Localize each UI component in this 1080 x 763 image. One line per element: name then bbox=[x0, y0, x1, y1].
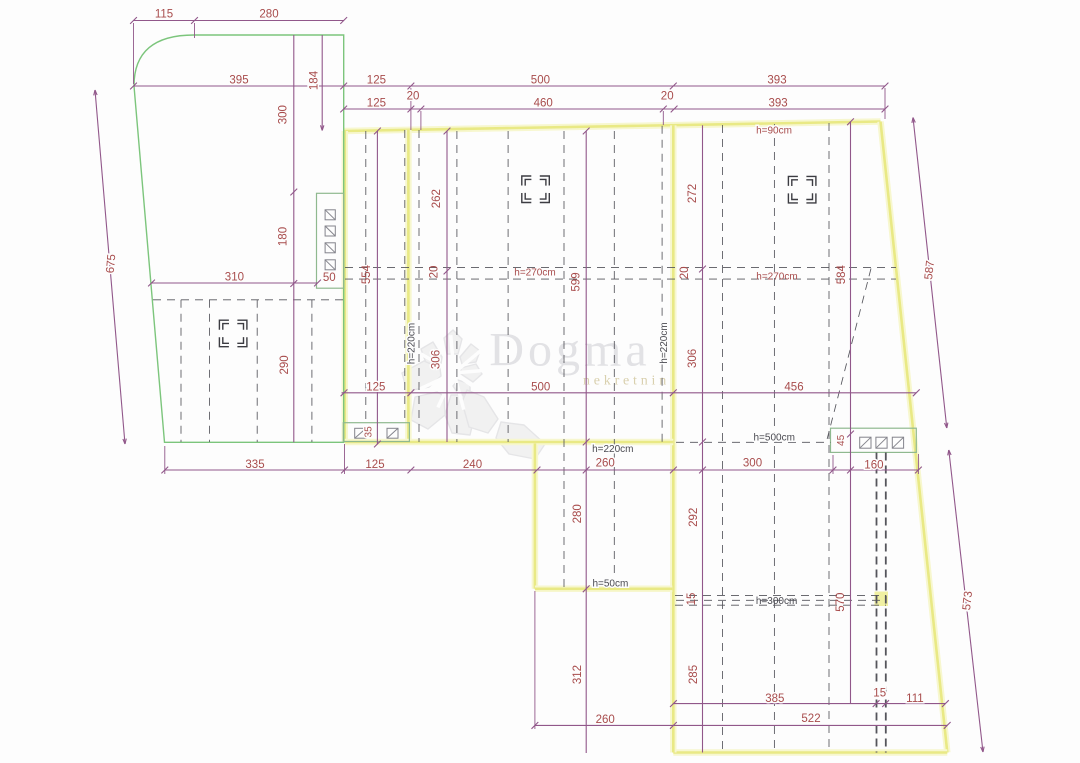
svg-text:50: 50 bbox=[323, 272, 336, 284]
dim line 385/15/111 bbox=[670, 700, 949, 707]
hatch squares in right box bbox=[860, 437, 904, 448]
svg-text:240: 240 bbox=[463, 459, 482, 471]
dashed roof line v x=829 bbox=[828, 123, 830, 753]
arrow of dim 184 bbox=[321, 125, 323, 130]
svg-text:587: 587 bbox=[923, 260, 937, 280]
hatch squares in upper-left box bbox=[325, 210, 335, 270]
svg-text:393: 393 bbox=[767, 75, 786, 87]
svg-text:573: 573 bbox=[961, 591, 975, 611]
svg-text:Dogma: Dogma bbox=[489, 324, 650, 377]
svg-text:599: 599 bbox=[571, 272, 583, 291]
dim line 115/280 bbox=[130, 17, 347, 24]
svg-text:260: 260 bbox=[596, 458, 615, 470]
wall yellow right edge (slanted) bbox=[881, 122, 948, 753]
watermark flower logo bbox=[402, 330, 545, 459]
svg-text:456: 456 bbox=[784, 382, 803, 394]
hatch squares in lower-left box bbox=[355, 428, 398, 438]
dashed roof line v x=366 bbox=[365, 131, 367, 423]
dashed level line h=270 lower bbox=[345, 278, 896, 280]
dim line 260/522 bbox=[532, 722, 951, 729]
svg-text:300: 300 bbox=[278, 105, 290, 124]
svg-text:584: 584 bbox=[836, 265, 848, 285]
svg-text:500: 500 bbox=[531, 75, 550, 87]
wall yellow vertical x=345 corridor bbox=[342, 131, 349, 442]
arrows of dim 573 bbox=[949, 450, 951, 455]
dim line 587 (slanted) bbox=[913, 118, 947, 429]
svg-text:262: 262 bbox=[431, 189, 443, 208]
svg-text:306: 306 bbox=[431, 350, 443, 369]
dashed roof line v x=722 bbox=[722, 125, 724, 753]
svg-text:300: 300 bbox=[743, 457, 762, 469]
dim texts rotated bbox=[105, 70, 975, 684]
svg-text:385: 385 bbox=[765, 693, 784, 705]
dashed roof line v x=257 bbox=[256, 300, 258, 442]
svg-text:115: 115 bbox=[155, 9, 173, 21]
dim line 599/280/312 bbox=[583, 128, 590, 753]
svg-text:272: 272 bbox=[687, 184, 699, 203]
svg-text:500: 500 bbox=[531, 382, 550, 394]
svg-text:554: 554 bbox=[361, 264, 373, 284]
dashed wall face v x=405 bbox=[404, 130, 406, 423]
svg-text:nekretnine: nekretnine bbox=[583, 374, 680, 389]
dim line 395/125/500/393 bbox=[130, 83, 888, 90]
svg-text:h=220cm: h=220cm bbox=[592, 444, 633, 455]
dim line 125/500/456 bbox=[341, 389, 920, 396]
svg-text:522: 522 bbox=[801, 713, 820, 725]
dashed level line h=300 lower bbox=[675, 604, 886, 606]
svg-text:h=500cm: h=500cm bbox=[753, 433, 794, 444]
dashed roof line v x=564 bbox=[563, 131, 565, 589]
svg-text:h=220cm: h=220cm bbox=[407, 323, 418, 364]
svg-text:125: 125 bbox=[367, 75, 386, 87]
svg-text:460: 460 bbox=[534, 98, 553, 110]
dashed roof line v x=508 bbox=[507, 131, 509, 442]
dim line 675 (slanted) bbox=[95, 90, 125, 444]
arrows of dim 587 bbox=[913, 118, 915, 123]
dashed wall face v x=662 bbox=[661, 126, 663, 442]
svg-text:125: 125 bbox=[366, 382, 385, 394]
dim line 300/180/290 bbox=[290, 35, 297, 442]
svg-text:20: 20 bbox=[661, 91, 674, 103]
wall yellow small room left edge x=535 bbox=[532, 444, 539, 589]
svg-text:20: 20 bbox=[679, 267, 691, 280]
dashed level line h=500 bbox=[676, 441, 831, 443]
dashed line y=300 left area bbox=[153, 299, 344, 301]
green plot outline with rounded corner bbox=[134, 35, 344, 442]
svg-text:395: 395 bbox=[229, 75, 248, 87]
svg-text:184: 184 bbox=[309, 70, 321, 90]
wall yellow horizontal y=442 bbox=[345, 439, 674, 446]
dashed roof line v x=209.5 bbox=[209, 300, 211, 442]
dashed roof line v x=181 bbox=[180, 300, 182, 442]
dim line 184 bbox=[321, 35, 323, 131]
svg-text:310: 310 bbox=[225, 272, 244, 284]
dim line 310 bbox=[148, 280, 321, 287]
dashed wall face v x=419 bbox=[418, 130, 420, 442]
dashed roof line v x=614 bbox=[613, 131, 615, 589]
wall yellow vertical x=673 bbox=[670, 125, 677, 752]
dashed roof line v x=457 bbox=[456, 131, 458, 442]
svg-text:15: 15 bbox=[686, 593, 698, 606]
svg-text:393: 393 bbox=[769, 98, 788, 110]
svg-text:h=220cm: h=220cm bbox=[659, 322, 670, 363]
svg-text:125: 125 bbox=[365, 459, 384, 471]
dashed level line h=270 upper bbox=[345, 267, 896, 269]
svg-text:180: 180 bbox=[278, 227, 290, 246]
green window box upper-left bbox=[317, 193, 344, 288]
svg-text:35: 35 bbox=[364, 426, 375, 438]
svg-text:280: 280 bbox=[572, 504, 584, 523]
dim line 554 bbox=[374, 128, 381, 448]
svg-text:160: 160 bbox=[864, 459, 883, 471]
dim line 584/570 bbox=[847, 118, 854, 703]
dim line 262/306 bbox=[444, 128, 451, 442]
svg-text:260: 260 bbox=[596, 714, 615, 726]
svg-text:675: 675 bbox=[105, 254, 119, 274]
svg-text:280: 280 bbox=[259, 9, 278, 21]
dim line 272/306/292/285 bbox=[699, 125, 706, 752]
dashed diagonal line bbox=[827, 269, 872, 442]
svg-text:h=50cm: h=50cm bbox=[592, 579, 628, 590]
dashed level line h=300 upper bbox=[675, 594, 886, 596]
svg-text:15: 15 bbox=[873, 688, 886, 700]
dashed double line v x=886 bbox=[885, 453, 887, 753]
svg-text:292: 292 bbox=[688, 508, 700, 527]
dashed roof line v x=774 bbox=[773, 124, 775, 753]
dashed roof line v x=312 bbox=[311, 300, 313, 442]
green window box right bbox=[831, 428, 917, 452]
height level texts bbox=[514, 126, 797, 607]
svg-text:20: 20 bbox=[407, 91, 420, 103]
arrows of dim 675 bbox=[95, 90, 97, 95]
svg-text:h=90cm: h=90cm bbox=[756, 126, 792, 137]
svg-text:290: 290 bbox=[279, 355, 291, 374]
svg-text:306: 306 bbox=[687, 349, 699, 368]
svg-text:312: 312 bbox=[572, 665, 584, 684]
svg-text:45: 45 bbox=[836, 434, 847, 446]
svg-text:285: 285 bbox=[688, 665, 700, 684]
svg-text:h=270cm: h=270cm bbox=[514, 268, 555, 279]
column symbol left room bbox=[219, 320, 247, 347]
svg-text:570: 570 bbox=[835, 593, 847, 612]
svg-text:111: 111 bbox=[906, 693, 923, 705]
green window box lower-left bbox=[343, 423, 409, 442]
svg-text:125: 125 bbox=[367, 98, 386, 110]
yellow patch at double dashed crossing bbox=[875, 592, 889, 607]
column symbol right room bbox=[788, 176, 816, 203]
svg-text:20: 20 bbox=[428, 266, 440, 279]
wall yellow small room bottom edge y=589 bbox=[535, 586, 672, 593]
wall yellow vertical x=409 corridor bbox=[405, 130, 412, 442]
dim line 573 (slanted) bbox=[949, 450, 983, 752]
dim texts horizontal bbox=[155, 9, 924, 726]
svg-text:h=300cm: h=300cm bbox=[756, 596, 797, 607]
dim line 125/20/460/20/393 bbox=[340, 106, 888, 113]
dashed level line h=300 mid bbox=[676, 599, 886, 601]
wall yellow top edge bbox=[344, 122, 881, 132]
svg-text:h=270cm: h=270cm bbox=[756, 272, 797, 283]
svg-text:335: 335 bbox=[245, 459, 264, 471]
dim line 335/125/240/260/300/160 bbox=[161, 467, 921, 474]
dashed double line v x=876 bbox=[876, 453, 878, 753]
wall yellow bottom edge bbox=[673, 749, 947, 756]
extension lines bbox=[134, 23, 919, 729]
column symbol middle room bbox=[522, 176, 550, 203]
